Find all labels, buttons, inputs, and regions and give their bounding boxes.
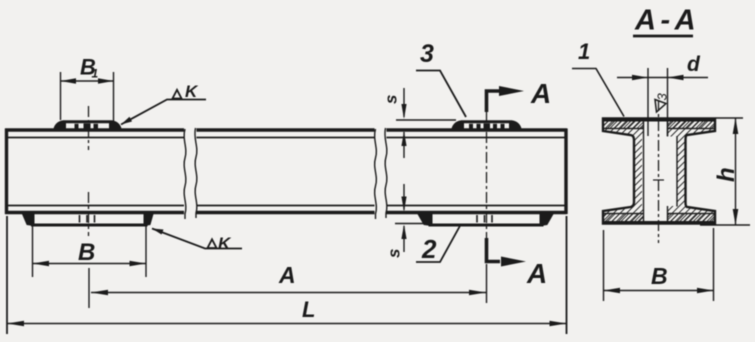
svg-text:s: s: [382, 95, 401, 104]
svg-text:h: h: [713, 167, 740, 182]
svg-text:d: d: [687, 53, 701, 76]
svg-text:A: A: [278, 262, 296, 288]
svg-text:s: s: [385, 249, 404, 258]
svg-text:A: A: [526, 258, 547, 289]
svg-text:K: K: [218, 234, 232, 253]
svg-text:2: 2: [421, 234, 437, 264]
svg-text:L: L: [302, 297, 315, 322]
svg-text:1: 1: [92, 67, 99, 81]
svg-text:B: B: [651, 263, 668, 289]
svg-text:A-A: A-A: [634, 5, 700, 37]
svg-text:3: 3: [420, 40, 434, 68]
svg-text:3: 3: [655, 93, 670, 101]
svg-text:K: K: [185, 82, 199, 101]
svg-text:A: A: [530, 78, 551, 109]
svg-text:1: 1: [578, 39, 590, 64]
svg-text:B: B: [78, 239, 95, 266]
